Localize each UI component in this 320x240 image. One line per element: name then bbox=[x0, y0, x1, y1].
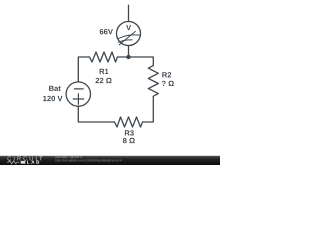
label R1 bbox=[100, 69, 109, 74]
wire voltmeter to node A bbox=[128, 46, 130, 58]
node A junction dot bbox=[126, 55, 130, 59]
battery minus sign bbox=[74, 88, 83, 90]
footer url line bbox=[56, 159, 122, 162]
resistor R2 bbox=[148, 66, 158, 97]
footer bar bbox=[0, 156, 220, 165]
label Bat bbox=[49, 86, 61, 91]
voltmeter M1 circle bbox=[117, 22, 141, 46]
wire R3 to battery bottom bbox=[78, 106, 114, 122]
wire R1 to node A bbox=[118, 56, 129, 58]
voltmeter lower arc bbox=[118, 40, 132, 42]
label 120 V bbox=[43, 96, 62, 101]
CircuitLab logo LAB text bbox=[27, 161, 39, 164]
label 66V bbox=[100, 29, 113, 34]
voltmeter needle bbox=[119, 31, 135, 44]
voltmeter top stub bbox=[128, 5, 130, 21]
footer credit line bbox=[56, 156, 82, 159]
label R2 bbox=[162, 72, 171, 77]
battery plus sign bbox=[73, 94, 83, 104]
wire R2 bottom to R3 bbox=[143, 97, 154, 122]
CircuitLab logo zigzag bbox=[7, 161, 20, 164]
battery V1 circle bbox=[66, 82, 90, 106]
CircuitLab logo dot bbox=[21, 161, 26, 164]
voltmeter letter V bbox=[126, 25, 131, 30]
voltmeter scale arc bbox=[118, 35, 141, 39]
wire node A to R2 top bbox=[129, 57, 154, 66]
wire battery top to R1 bbox=[78, 57, 89, 82]
CircuitLab logo CIRCUIT text bbox=[8, 157, 43, 161]
label R3 bbox=[125, 130, 134, 135]
label 22 ohm bbox=[96, 78, 112, 83]
resistor R3 bbox=[115, 117, 143, 127]
label 8 ohm bbox=[123, 138, 135, 143]
resistor R1 bbox=[90, 52, 118, 62]
label ? ohm bbox=[162, 81, 174, 86]
